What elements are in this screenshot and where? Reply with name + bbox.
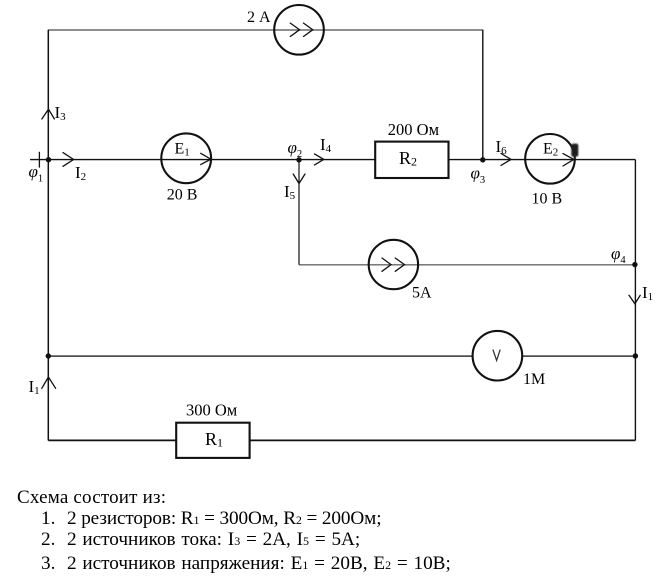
svg-text:2 А: 2 А [247, 9, 271, 26]
svg-text:I4: I4 [320, 135, 332, 155]
svg-text:φ1: φ1 [29, 162, 44, 185]
svg-text:I1: I1 [29, 377, 40, 397]
svg-text:1M: 1M [523, 371, 545, 388]
svg-text:I1: I1 [642, 283, 653, 303]
svg-text:I6: I6 [496, 137, 508, 157]
svg-text:300 Ом: 300 Ом [186, 400, 238, 419]
svg-text:200 Ом: 200 Ом [388, 120, 440, 139]
svg-text:E1: E1 [175, 141, 190, 159]
svg-text:E2: E2 [543, 141, 558, 159]
svg-text:φ3: φ3 [471, 164, 486, 187]
svg-text:I5: I5 [284, 182, 296, 202]
svg-text:I2: I2 [75, 163, 86, 183]
svg-text:I3: I3 [55, 103, 67, 123]
svg-text:20 В: 20 В [167, 187, 198, 204]
svg-text:φ2: φ2 [288, 138, 303, 160]
svg-text:10 В: 10 В [532, 190, 563, 207]
svg-text:φ4: φ4 [611, 244, 626, 266]
svg-text:5А: 5А [412, 285, 432, 302]
